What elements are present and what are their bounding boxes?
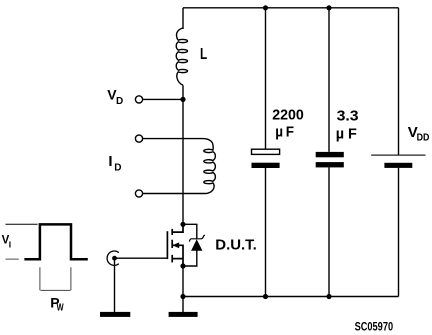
channel bar middle <box>171 240 173 248</box>
wire top rail <box>183 7 399 9</box>
inductor L <box>176 28 187 85</box>
wire branch C2 top <box>328 8 330 152</box>
svg-text:2200: 2200 <box>272 106 304 123</box>
wire ID top <box>143 138 204 140</box>
wire gate lead <box>115 257 168 259</box>
ground bar center <box>169 312 198 317</box>
wire connector to ground <box>114 258 116 312</box>
drain lead <box>172 224 183 232</box>
wire bottom rail <box>183 296 399 298</box>
node bottom rail C2 <box>326 294 331 299</box>
svg-text:µ F: µ F <box>336 125 357 142</box>
wire main vertical (drain line) <box>182 85 184 224</box>
node VD junction <box>180 97 185 102</box>
channel bar bottom <box>171 255 173 263</box>
node bottom-rail ground junction <box>180 294 185 299</box>
PW bracket bottom line <box>41 289 71 291</box>
node top rail C2 <box>326 5 331 10</box>
source lead <box>172 259 183 266</box>
wire source to bottom rail <box>182 266 184 297</box>
terminal ID top circle <box>135 135 142 142</box>
capacitor C2 3.3uF top plate <box>316 152 344 157</box>
wire branch C1 bottom <box>265 168 267 297</box>
wire branch C1 top <box>265 8 267 149</box>
svg-text:I: I <box>9 239 11 249</box>
PW bracket left tick <box>39 267 41 290</box>
diode body (zener style) <box>183 224 205 266</box>
coil ID current probe <box>204 139 216 194</box>
node source junction <box>180 263 185 268</box>
wire branch C2 bottom <box>328 167 330 296</box>
wire inductor top stub <box>182 8 184 29</box>
svg-text:µ F: µ F <box>275 123 294 140</box>
svg-text:I: I <box>108 153 112 170</box>
wire diode bottom <box>183 250 197 266</box>
wire VD to main <box>143 98 183 100</box>
gate bar <box>166 231 168 259</box>
terminal VD circle <box>135 96 142 103</box>
svg-text:L: L <box>200 46 207 63</box>
diode triangle <box>191 239 202 251</box>
wire branch battery top <box>398 8 400 155</box>
svg-text:D: D <box>114 163 121 174</box>
connector (gate drive input) <box>107 251 119 265</box>
capacitor C2 bottom plate <box>316 162 344 167</box>
transistor Q1 D.U.T. MOSFET <box>167 224 183 266</box>
PW bracket right tick <box>70 267 72 290</box>
arrowhead body <box>172 242 179 248</box>
battery VDD short plate <box>384 163 412 168</box>
pulse baseline gray dash <box>6 258 19 260</box>
svg-text:W: W <box>57 302 64 313</box>
svg-text:3.3: 3.3 <box>337 108 359 125</box>
wire ID bottom <box>143 193 204 195</box>
wire branch battery bottom <box>398 168 400 297</box>
node top rail C1 <box>263 5 268 10</box>
svg-text:SC05970: SC05970 <box>355 322 394 334</box>
svg-text:D.U.T.: D.U.T. <box>215 237 256 254</box>
svg-text:DD: DD <box>417 133 430 144</box>
capacitor C1 bottom plate <box>252 163 280 168</box>
channel bar top <box>171 229 173 235</box>
diode cathode bar with hooks <box>189 235 205 241</box>
body lead with arrow <box>172 245 183 258</box>
pulse reference top line <box>6 223 38 225</box>
connector center dot <box>112 256 117 261</box>
node bottom rail C1 <box>263 294 268 299</box>
capacitor C1 2200uF top plate (hollow) <box>252 149 280 154</box>
svg-text:D: D <box>116 96 123 107</box>
pulse waveform trace <box>24 224 87 259</box>
ground bar left <box>100 312 130 317</box>
wire ground stub center <box>182 297 184 313</box>
battery VDD long plate <box>371 154 425 156</box>
terminal ID bottom circle <box>135 190 142 197</box>
wire diode top <box>183 224 197 238</box>
node drain junction <box>180 222 185 227</box>
